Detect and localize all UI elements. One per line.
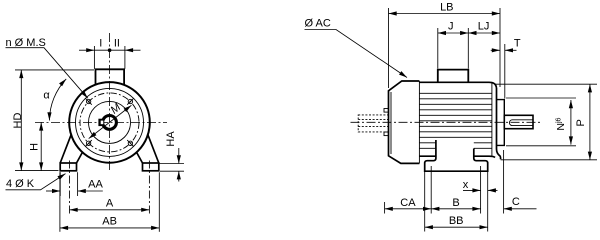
shaft keyway slot (top view) (509, 120, 533, 126)
hidden keyway lines (358, 118, 388, 120)
fan cover inner line (390, 92, 392, 154)
shaft ring (103, 116, 117, 130)
svg-text:4 Ø K: 4 Ø K (6, 178, 35, 190)
svg-text:C: C (512, 196, 520, 208)
cover clip top (384, 109, 389, 113)
terminal box side (438, 70, 469, 83)
dimension H (40, 122, 42, 170)
ground extension line (15, 170, 59, 172)
dimension C (504, 208, 537, 210)
bolt hole bottom-right (128, 141, 132, 145)
dimension AA (46, 161, 103, 214)
body top edge (419, 82, 496, 88)
right foot leg inner edge (136, 152, 142, 163)
svg-text:LB: LB (440, 1, 453, 13)
bolt hole top-left (86, 99, 90, 103)
dimension CA (385, 208, 432, 210)
dimension BB (425, 226, 488, 228)
stator/endshield seam (491, 82, 493, 156)
terminal box front (96, 69, 125, 85)
svg-text:H: H (29, 143, 41, 151)
dimension AB (60, 172, 159, 232)
svg-text:P: P (575, 119, 587, 126)
left foot leg inner edge (77, 152, 83, 163)
dimension LJ (468, 32, 500, 34)
keyway block (98, 119, 104, 126)
svg-text:A: A (106, 198, 114, 210)
dimension M diagonal with outward arrows (89, 105, 132, 138)
cooling fins (419, 93, 492, 148)
svg-text:α: α (43, 89, 50, 101)
horizontal centerline (35, 121, 167, 123)
cover clip bottom (384, 132, 389, 136)
svg-text:LJ: LJ (478, 20, 490, 32)
main centerline (351, 121, 542, 123)
dimension HA (160, 148, 185, 182)
svg-text:T: T (514, 38, 521, 50)
svg-text:x: x (463, 179, 469, 191)
svg-text:II: II (114, 37, 120, 49)
dimension x (463, 189, 498, 191)
dimension T (491, 44, 517, 99)
dimension A (148, 161, 150, 214)
body right edge (497, 88, 501, 159)
svg-text:Ø AC: Ø AC (305, 18, 331, 30)
svg-text:BB: BB (449, 215, 464, 227)
center dot of I/II (108, 48, 112, 52)
bolt pitch circle (dashed) (80, 93, 139, 152)
svg-text:B: B (452, 197, 459, 209)
fan cover seam (418, 81, 420, 163)
hidden rear shaft stub (358, 115, 388, 132)
dimension J (438, 28, 469, 69)
dimension N j6 (506, 98, 576, 146)
svg-text:n Ø M.S: n Ø M.S (6, 37, 46, 49)
svg-text:J: J (448, 20, 454, 32)
foot block and pad side view (425, 140, 488, 171)
svg-text:HA: HA (165, 131, 177, 147)
angle dimension alpha (49, 79, 66, 121)
left foot leg outer edge (60, 134, 71, 163)
dimension B (431, 208, 480, 210)
bottom extension lines right view (385, 150, 504, 232)
right foot leg outer edge (148, 134, 159, 163)
dimension P (496, 84, 598, 160)
svg-text:CA: CA (400, 197, 416, 209)
keyway slot (101, 121, 104, 125)
svg-text:Nj6: Nj6 (555, 117, 567, 130)
right foot pad (143, 163, 159, 171)
bearing hub (497, 100, 504, 146)
svg-text:AB: AB (102, 216, 117, 228)
svg-text:HD: HD (12, 113, 24, 129)
vertical centerline (109, 33, 111, 172)
bolt hole bottom-left (86, 141, 90, 145)
left foot pad (60, 163, 76, 171)
svg-text:I: I (99, 37, 102, 49)
fan cover outline (389, 81, 420, 163)
bolt hole top-right (128, 99, 132, 103)
flange seat circle (76, 88, 144, 156)
spigot circle (89, 101, 131, 143)
svg-text:AA: AA (88, 179, 103, 191)
dimension LB (389, 8, 501, 88)
shaft (504, 115, 533, 128)
motor outer housing circle (69, 82, 150, 163)
dimension HD (15, 69, 94, 71)
body bottom edges (419, 156, 495, 157)
dimension I / II row (79, 46, 141, 69)
